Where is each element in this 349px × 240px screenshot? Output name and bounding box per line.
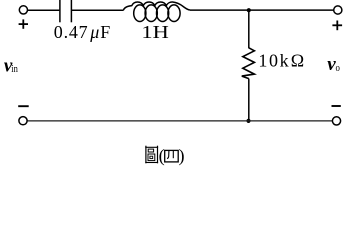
caption character tu (figure) xyxy=(145,146,158,164)
output terminal bottom-right xyxy=(332,117,340,125)
minus sign input xyxy=(18,105,29,107)
caption character four xyxy=(165,150,179,162)
svg-text:): ) xyxy=(179,145,185,166)
bottom wire xyxy=(27,120,332,122)
plus sign output xyxy=(332,21,342,31)
svg-text:Ω: Ω xyxy=(291,50,304,70)
input terminal bottom-left xyxy=(19,117,27,125)
wire terminal to capacitor xyxy=(28,9,60,11)
svg-text:1H: 1H xyxy=(141,22,168,42)
svg-text:o: o xyxy=(336,62,341,74)
wire resistor to bottom xyxy=(248,79,250,121)
resistor R1 zigzag xyxy=(242,48,255,79)
wire inductor to output terminal xyxy=(190,9,334,11)
node junction bottom xyxy=(246,119,250,123)
minus sign output xyxy=(332,105,341,107)
svg-text:μ: μ xyxy=(89,22,99,42)
capacitor C1 right plate xyxy=(70,0,72,22)
svg-text:in: in xyxy=(11,63,18,75)
output terminal top-right xyxy=(334,6,342,14)
svg-text:0.47: 0.47 xyxy=(54,22,88,42)
svg-text:10k: 10k xyxy=(258,50,288,70)
input terminal top-left xyxy=(19,6,27,14)
node junction top xyxy=(247,8,251,12)
plus sign input xyxy=(19,19,28,28)
inductor L1 xyxy=(123,2,190,22)
capacitor C1 left plate xyxy=(59,0,61,22)
wire node to resistor xyxy=(248,10,250,48)
wire capacitor to inductor xyxy=(72,9,124,11)
svg-text:(: ( xyxy=(159,145,165,166)
svg-text:F: F xyxy=(100,22,110,42)
